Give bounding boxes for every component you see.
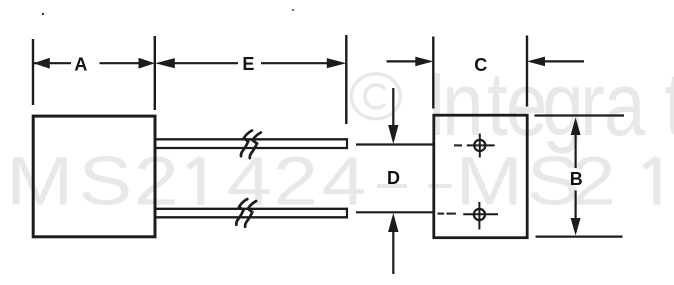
watermark row2 digit 1 (second) [644, 158, 657, 205]
top hole crosshair vertical [479, 134, 481, 158]
mounting plate right box [434, 115, 527, 238]
bottom lead end cap [346, 208, 348, 219]
dim B bottom arrowhead [571, 218, 581, 236]
dim D bottom extension line [356, 211, 434, 213]
dim A left arrowhead [34, 58, 50, 69]
dim C left arrowhead [415, 57, 433, 67]
dim A / E shared extension line [154, 36, 156, 110]
svg-text:r: r [580, 53, 605, 154]
top hole circle [474, 140, 485, 151]
bottom hole centerline dash 2 [447, 213, 456, 215]
top lead end cap [346, 138, 348, 149]
watermark row2 digit 1 (first) [188, 158, 201, 205]
break symbol on bottom lead [236, 199, 256, 227]
dim C left extension line [432, 37, 434, 109]
break symbol on top lead [241, 131, 261, 159]
watermark row2 dash 2 [429, 184, 452, 188]
top hole crosshair horizontal [467, 144, 495, 146]
bottom lead wire lower line [156, 216, 347, 218]
watermark row1 text Integrated [426, 53, 674, 154]
bottom hole crosshair horizontal [463, 213, 498, 215]
top lead wire lower line [156, 147, 347, 149]
top hole centerline dash [454, 144, 462, 146]
dim C right extension line [526, 36, 528, 107]
dim A right arrowhead [139, 58, 155, 69]
svg-text:S: S [79, 142, 133, 219]
bottom hole crosshair vertical [478, 202, 480, 230]
dim A line left segment [34, 62, 72, 64]
bottom hole circle [474, 209, 485, 220]
svg-text:B: B [570, 169, 583, 189]
dim A left extension line [32, 39, 34, 105]
watermark row1 copyright symbol [351, 74, 400, 119]
dim B top extension line [535, 114, 625, 116]
dim A line right segment [100, 62, 141, 64]
dim D top extension line [356, 143, 434, 145]
dim C left line segment [387, 60, 419, 62]
svg-text:M: M [456, 142, 523, 219]
dim D bottom arrow shaft [392, 228, 394, 274]
dim B bottom extension line [536, 236, 623, 238]
svg-text:a: a [604, 53, 646, 154]
dim E right extension line [345, 35, 347, 124]
svg-text:E: E [242, 54, 254, 74]
dim E line right segment [261, 62, 330, 64]
dim E left arrowhead [155, 58, 175, 68]
dim B line lower segment [574, 191, 576, 222]
top lead wire upper line [156, 138, 347, 140]
dim B top arrowhead [571, 118, 581, 136]
dim D top arrowhead [388, 125, 398, 144]
dim D top arrow shaft [392, 88, 394, 129]
bottom lead wire upper line [156, 208, 347, 210]
svg-text:D: D [387, 168, 400, 188]
bottom hole centerline dash 1 [438, 213, 445, 215]
svg-text:A: A [74, 55, 87, 75]
component body left box [33, 116, 155, 237]
svg-text:M: M [6, 142, 73, 219]
speck dot top left [42, 13, 44, 15]
dim E right arrowhead [327, 58, 347, 68]
watermark row2 text MS21424--MS21 [6, 142, 616, 219]
dim D bottom arrowhead [388, 213, 398, 232]
dim B line upper segment [574, 132, 576, 168]
dim C right line segment [542, 60, 584, 62]
watermark row2 dash 1 [377, 184, 407, 188]
svg-text:t: t [664, 53, 674, 154]
svg-text:C: C [474, 55, 487, 75]
dim E line left segment [173, 62, 238, 64]
speck dot top middle [292, 9, 294, 11]
svg-text:g: g [542, 53, 584, 154]
svg-text:t: t [487, 53, 508, 154]
dim C right arrowhead [527, 57, 545, 67]
